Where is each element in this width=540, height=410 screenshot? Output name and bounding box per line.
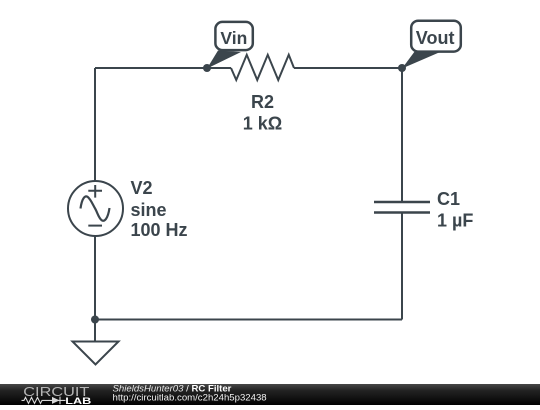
svg-text:C1: C1 xyxy=(437,189,460,209)
svg-text:Vout: Vout xyxy=(416,28,455,48)
wire: right vertical bottom (capacitor to bottom wire) xyxy=(401,213,403,320)
svg-text:V2: V2 xyxy=(131,178,153,198)
svg-text:1 µF: 1 µF xyxy=(437,211,473,231)
capacitor C1 top plate xyxy=(374,201,430,203)
wire: left vertical (top corner to source) xyxy=(94,68,96,181)
node dot ground junction xyxy=(91,316,99,324)
svg-text:R2: R2 xyxy=(251,92,274,112)
resistor R2 xyxy=(231,55,294,80)
voltage source sine wave xyxy=(81,196,110,220)
svg-text:100 Hz: 100 Hz xyxy=(131,220,188,240)
wire: top-left horizontal (Vin node to resistor) xyxy=(95,67,231,69)
diode triangle xyxy=(52,397,60,404)
svg-text:sine: sine xyxy=(131,200,167,220)
Vout flag tail xyxy=(402,51,439,69)
wire: ground lead xyxy=(94,320,96,342)
wire: bottom horizontal xyxy=(95,319,402,321)
footer bar xyxy=(0,384,540,405)
voltage source minus sign xyxy=(88,225,102,227)
wire: top-right horizontal (resistor to Vout node) xyxy=(294,67,402,69)
wire: right vertical top (Vout node to capacitor) xyxy=(401,68,403,202)
wire: source bottom lead to ground junction xyxy=(94,236,96,320)
node dot Vout xyxy=(398,64,406,72)
svg-text:Vin: Vin xyxy=(220,28,247,48)
svg-text:1 kΩ: 1 kΩ xyxy=(243,114,282,134)
svg-text:http://circuitlab.com/c2h24h5p: http://circuitlab.com/c2h24h5p32438 xyxy=(113,392,267,403)
Vin flag tail xyxy=(207,51,241,69)
voltage source V2 circle xyxy=(68,181,123,236)
svg-text:LAB: LAB xyxy=(65,396,92,405)
ground symbol triangle xyxy=(73,342,119,365)
Vout flag bubble xyxy=(411,21,461,52)
Vin flag bubble xyxy=(215,22,252,50)
capacitor C1 bottom plate xyxy=(374,211,430,213)
node dot Vin xyxy=(203,64,211,72)
CircuitLab logo resistor-diode glyph xyxy=(22,397,66,405)
voltage source plus sign xyxy=(88,185,102,198)
